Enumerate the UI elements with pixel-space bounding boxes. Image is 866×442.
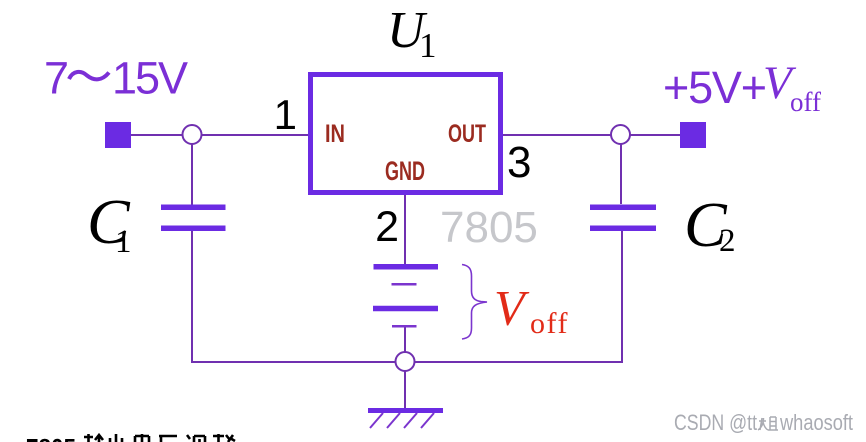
svg-text:off: off xyxy=(530,307,569,340)
svg-text:2: 2 xyxy=(375,203,399,251)
svg-text:2: 2 xyxy=(719,223,736,259)
svg-text:1: 1 xyxy=(115,224,132,260)
svg-text:CSDN @tt: CSDN @tt xyxy=(674,410,757,435)
svg-text:3: 3 xyxy=(507,138,531,187)
svg-text:+5V+: +5V+ xyxy=(663,62,766,113)
svg-text:7805: 7805 xyxy=(440,203,538,252)
svg-text:OUT: OUT xyxy=(448,120,486,148)
svg-text:7: 7 xyxy=(44,53,69,104)
svg-text:1: 1 xyxy=(274,91,297,138)
svg-text:whaosoft: whaosoft xyxy=(779,410,853,435)
svg-text:IN: IN xyxy=(325,120,345,148)
svg-text:GND: GND xyxy=(385,156,425,186)
svg-text:1: 1 xyxy=(419,26,437,65)
svg-text:15V: 15V xyxy=(112,53,188,104)
svg-text:V: V xyxy=(494,280,530,336)
svg-text:7805: 7805 xyxy=(26,433,76,442)
svg-text:off: off xyxy=(790,87,821,117)
